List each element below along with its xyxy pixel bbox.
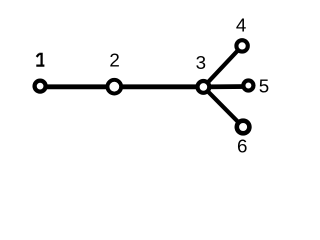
node 1 (35, 81, 46, 92)
wire edge 2-3 (114, 84, 204, 89)
svg-text:6: 6 (237, 136, 247, 157)
svg-text:5: 5 (259, 76, 269, 97)
node 3 (198, 81, 210, 93)
wire edge 3-5 (204, 84, 249, 89)
svg-text:2: 2 (109, 49, 119, 70)
wire edge 3-6 (204, 87, 244, 127)
wire edge 3-4 (204, 46, 243, 87)
node 2 (107, 80, 121, 94)
node 5 (243, 80, 253, 90)
node 4 (236, 40, 247, 51)
svg-text:4: 4 (236, 15, 246, 36)
wire edge 1-2 (40, 84, 114, 89)
svg-text:3: 3 (196, 52, 206, 73)
node 6 (237, 121, 250, 134)
label 1 (36, 54, 44, 66)
